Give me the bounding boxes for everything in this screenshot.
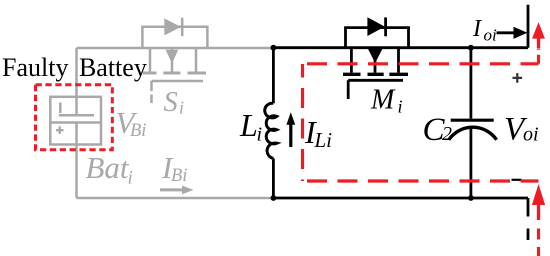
svg-text:Li: Li [314, 128, 333, 152]
svg-text:S: S [164, 87, 178, 118]
svg-text:i: i [398, 96, 403, 116]
svg-text:2: 2 [442, 123, 452, 145]
svg-text:Bi: Bi [171, 166, 187, 186]
svg-text:Faulty Battey: Faulty Battey [2, 53, 147, 82]
svg-text:oi: oi [523, 123, 539, 145]
svg-text:M: M [370, 84, 396, 115]
svg-text:i: i [179, 98, 184, 118]
svg-text:i: i [257, 124, 263, 146]
svg-text:i: i [128, 168, 133, 189]
svg-text:L: L [239, 107, 258, 143]
svg-text:I: I [472, 16, 482, 42]
svg-text:Bat: Bat [86, 150, 130, 185]
svg-text:oi: oi [484, 25, 498, 44]
svg-text:Bi: Bi [130, 121, 146, 141]
